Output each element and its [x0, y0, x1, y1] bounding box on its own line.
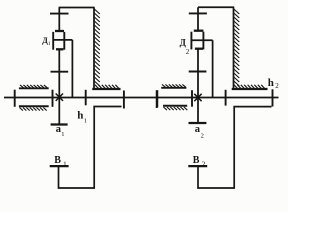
wall W2 hatching	[234, 9, 240, 86]
hook bar B2	[188, 165, 207, 167]
motor D2 top coupling bar	[194, 30, 204, 32]
left bearing 2 top line	[161, 87, 186, 89]
ledge W2 hatching	[234, 85, 265, 89]
coupling tick middle shaft	[156, 90, 158, 108]
shaft 2 bottom bar a2	[189, 122, 207, 124]
wall support W2 vertical	[233, 7, 235, 89]
vertical shaft 1 lower	[58, 49, 60, 124]
motor D1 mount line to frame	[53, 39, 72, 41]
motor D1 bottom coupling bar	[56, 48, 63, 50]
bearing tick on shaft 2 top	[189, 12, 207, 14]
gear mesh X mark 1	[56, 94, 63, 101]
svg-text:2: 2	[275, 82, 279, 90]
left bearing 1 right tick	[52, 90, 54, 107]
motor D1 top coupling bar	[55, 30, 64, 32]
svg-text:h: h	[77, 110, 83, 122]
left bearing 2 top hatching	[162, 84, 186, 87]
svg-text:h: h	[268, 77, 274, 89]
svg-text:В: В	[54, 155, 61, 166]
svg-text:В: В	[193, 155, 200, 166]
housing 1 outline hanging down	[59, 107, 122, 189]
svg-text:Д: Д	[180, 38, 187, 48]
motor D2 left side	[190, 32, 192, 50]
svg-text:1: 1	[61, 131, 64, 138]
wall W1 hatching	[94, 9, 100, 86]
frame hanger 1 vertical	[71, 40, 73, 98]
bearing tick right end of housing 1	[123, 91, 125, 109]
gear mesh X mark 2	[194, 94, 201, 101]
shaft 1 bottom bar a1	[51, 123, 68, 125]
ledge W1 hatching	[95, 85, 119, 89]
vertical shaft 2 upper	[197, 7, 199, 30]
left bearing 2 bottom line	[163, 105, 187, 107]
left bearing 1 bottom hatching	[20, 108, 47, 111]
housing 2 outline hanging down	[198, 107, 272, 188]
left bearing 1 bottom line	[19, 105, 49, 107]
bearing tick on shaft 1 top	[50, 13, 69, 15]
left bearing 1 top line	[19, 87, 49, 89]
svg-text:2: 2	[201, 133, 204, 140]
wall support W1 vertical	[93, 8, 95, 90]
left bearing 2 right tick	[191, 90, 193, 107]
support ledge under wall W2 (bearing top line)	[232, 88, 268, 90]
horizontal shaft (common axis)	[4, 97, 279, 99]
wire top horizontal mech1	[59, 7, 95, 9]
motor D1 left side	[52, 32, 54, 50]
motor D2 mount line to frame	[191, 39, 212, 41]
coupling tick on shaft right of X1	[85, 90, 87, 106]
coupling tick on shaft right of X2	[225, 90, 227, 106]
vertical shaft 1 upper	[58, 8, 60, 32]
frame hanger 2 vertical	[212, 40, 214, 97]
motor D2 bottom coupling bar	[195, 48, 203, 50]
vertical shaft 2 lower	[197, 49, 199, 123]
svg-text:1: 1	[48, 41, 51, 47]
wire top horizontal mech2	[198, 6, 234, 8]
motor D1 right side	[63, 32, 65, 50]
left bearing 2 left tick	[156, 90, 158, 107]
svg-text:2: 2	[202, 159, 206, 168]
svg-text:1: 1	[84, 117, 87, 124]
support ledge under wall W1 (bearing top line)	[92, 88, 120, 90]
bearing tick on shaft 1 middle	[51, 71, 69, 73]
hook bar B1	[50, 165, 69, 167]
left bearing 2 bottom hatching	[164, 107, 188, 110]
bearing tick on shaft 2 middle	[189, 71, 207, 73]
motor D2 right side	[202, 32, 204, 50]
left bearing 1 left tick	[14, 90, 16, 107]
svg-text:1: 1	[63, 159, 67, 168]
left bearing 1 top hatching	[20, 85, 47, 88]
svg-text:2: 2	[186, 48, 190, 56]
bearing tick right end of shaft	[272, 89, 274, 106]
